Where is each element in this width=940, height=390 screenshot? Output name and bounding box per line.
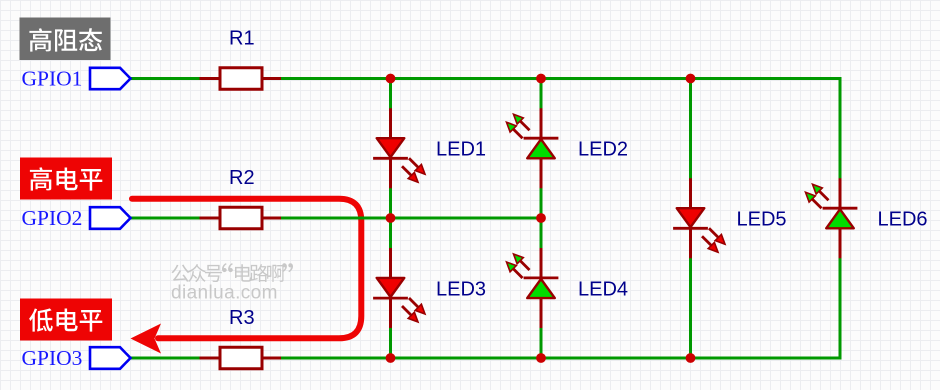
LED LED2 lead [540, 108, 543, 188]
port GPIO2 connector symbol [90, 207, 131, 229]
wire: LED5 column [689, 79, 692, 359]
LED LED2 triangle (green, anode up) [527, 139, 555, 158]
wire: bottom rail GPIO3 row [131, 357, 842, 360]
LED LED1 triangle (red, cathode down) [377, 138, 405, 157]
wire: middle rail GPIO2 row [131, 217, 542, 220]
svg-text:LED5: LED5 [737, 209, 787, 231]
LED LED5 light emission arrows [702, 228, 725, 252]
watermark line 1 公众号“电路啊” [172, 263, 294, 282]
svg-text:LED6: LED6 [878, 209, 928, 231]
junction node dot 6 [386, 353, 396, 363]
LED LED3 light emission arrows [402, 298, 425, 322]
junction node dot 8 [686, 353, 696, 363]
wire: LED2/LED4 column [540, 79, 543, 359]
svg-text:R3: R3 [229, 307, 255, 329]
junction node dot 2 [536, 74, 546, 84]
LED LED1 lead [389, 108, 392, 188]
LED LED3 cathode bar [373, 297, 408, 300]
LED LED1 cathode bar [373, 157, 408, 160]
state label text 低电平 [29, 308, 102, 331]
svg-text:GPIO3: GPIO3 [22, 346, 83, 370]
svg-text:R1: R1 [229, 28, 255, 50]
state label text 高阻态 [29, 28, 102, 51]
svg-text:LED2: LED2 [578, 139, 628, 161]
LED LED2 cathode bar [524, 137, 559, 140]
current flow arrow path (from GPIO2 high to GPIO3 low) [132, 199, 361, 339]
resistor R1 body [220, 68, 262, 90]
resistor R2 body [220, 207, 262, 229]
LED LED6 lead [839, 178, 842, 258]
resistor R3 lead left [200, 357, 223, 360]
LED LED2 light emission arrows [507, 114, 530, 138]
port GPIO1 connector symbol [90, 68, 131, 89]
resistor R3 lead right [260, 357, 281, 360]
LED LED6 light emission arrows [806, 184, 829, 208]
state label box 高阻态 (hi-Z) [20, 18, 111, 61]
junction node dot 1 [386, 74, 396, 84]
LED LED3 lead [389, 248, 392, 328]
LED LED4 light emission arrows [507, 254, 530, 278]
wire: top rail GPIO1 row [131, 77, 841, 80]
LED LED1 light emission arrows [402, 158, 425, 182]
LED LED6 cathode bar [823, 207, 858, 210]
svg-text:dianlua.com: dianlua.com [171, 283, 278, 304]
LED LED4 lead [540, 248, 543, 328]
LED LED4 triangle (green, anode up) [527, 279, 555, 298]
state label box 低电平 (low) [20, 299, 112, 341]
current flow arrowhead [131, 324, 162, 354]
state label text 高电平 [30, 167, 102, 190]
resistor R3 body [220, 347, 262, 369]
resistor R1 lead right [260, 77, 281, 80]
svg-text:GPIO2: GPIO2 [22, 206, 83, 230]
svg-text:LED3: LED3 [436, 278, 486, 300]
wire: LED1/LED3 column [389, 79, 392, 359]
LED LED3 triangle (red, cathode down) [377, 278, 405, 297]
LED LED5 cathode bar [673, 227, 708, 230]
state label box 高电平 (high) [20, 158, 112, 200]
resistor R1 lead left [200, 77, 223, 80]
svg-text:LED1: LED1 [436, 139, 486, 161]
wire: LED6 column / right side [839, 77, 842, 358]
LED LED5 triangle (red, cathode down) [677, 208, 705, 227]
resistor R2 lead right [260, 217, 281, 220]
junction node dot 7 [536, 353, 546, 363]
junction node dot 3 [686, 74, 696, 84]
resistor R2 lead left [200, 217, 223, 220]
svg-text:R2: R2 [229, 167, 255, 189]
junction node dot 4 [386, 213, 396, 223]
LED LED4 cathode bar [524, 276, 559, 279]
svg-text:GPIO1: GPIO1 [22, 67, 83, 91]
LED LED6 triangle (green, anode up) [826, 209, 854, 228]
svg-text:LED4: LED4 [578, 278, 628, 300]
junction node dot 5 [536, 213, 546, 223]
LED LED5 lead [689, 178, 692, 258]
port GPIO3 connector symbol [90, 347, 131, 369]
